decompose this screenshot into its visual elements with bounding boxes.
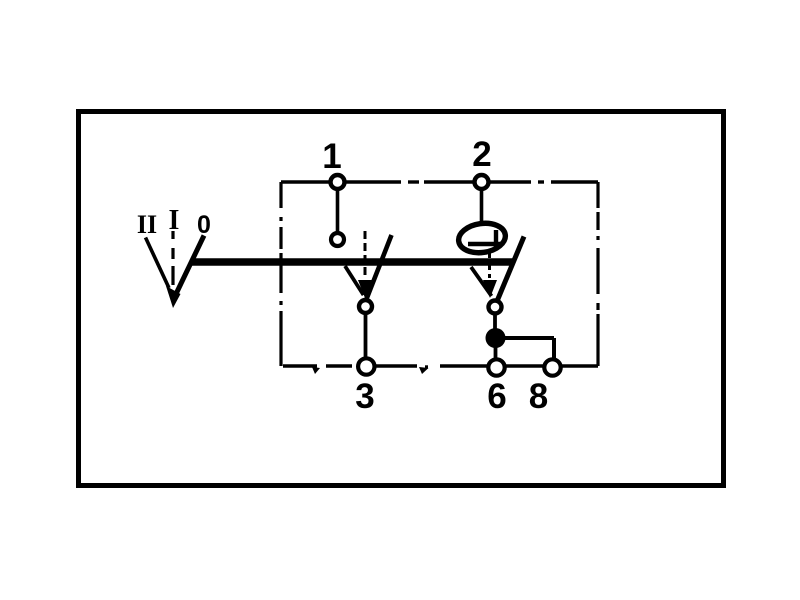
- contact 1 movement arrow (dashed): [364, 231, 367, 278]
- contact 2 left leg: [471, 267, 492, 296]
- lever line at position 0: [176, 236, 205, 296]
- contact 1 moving blade: [367, 235, 392, 299]
- contact 2 pole circle: [489, 301, 502, 314]
- terminal 6: [488, 359, 504, 375]
- outer border frame: [79, 112, 724, 486]
- junction dot: [486, 328, 506, 348]
- tick mark on bottom edge: [419, 367, 429, 374]
- lever line to position II: [146, 238, 170, 289]
- svg-text:8: 8: [529, 377, 548, 416]
- wire junction to terminal 8 (vertical): [552, 338, 556, 358]
- contact 1 left leg: [345, 266, 364, 295]
- lever arrowhead: [166, 286, 181, 308]
- fixed contact circle (pole 1): [331, 233, 344, 246]
- wire pole 1 down to terminal 3: [364, 314, 368, 358]
- inner boundary: bottom edge solid run to corner: [440, 364, 598, 367]
- svg-text:3: 3: [355, 377, 374, 416]
- contact 2 moving blade: [498, 237, 525, 301]
- svg-text:II: II: [137, 210, 157, 239]
- inner dash-dot boundary: right edge: [596, 182, 599, 366]
- svg-text:1: 1: [322, 137, 341, 176]
- contact 1 arrowhead: [358, 280, 372, 298]
- svg-text:0: 0: [197, 211, 211, 239]
- inner dash-dot boundary: left edge: [279, 182, 282, 366]
- svg-text:6: 6: [487, 377, 506, 416]
- terminal 3: [358, 358, 374, 374]
- wire junction to terminal 6: [494, 346, 498, 358]
- terminal 8: [544, 359, 560, 375]
- actuator bar (mechanical link): [192, 258, 514, 266]
- terminal 1: [331, 175, 345, 189]
- contact 1 pole circle: [359, 300, 372, 313]
- lever dashed line to position I: [171, 231, 174, 285]
- wire terminal 2 to loop: [480, 190, 484, 226]
- wire junction to terminal 8 (horizontal): [503, 336, 554, 340]
- contact 2 movement arrow (dashed): [488, 250, 491, 278]
- loop symbol (coil): [457, 220, 508, 255]
- inner dash-dot boundary: bottom edge: [283, 366, 428, 367]
- svg-text:2: 2: [472, 135, 491, 174]
- inner dash-dot boundary: top edge: [281, 180, 598, 183]
- wire pole 2 down to junction: [493, 314, 497, 330]
- tick mark on bottom edge: [312, 367, 320, 374]
- contact 2 arrowhead: [483, 280, 497, 298]
- wire terminal 1 to fixed contact: [336, 190, 340, 232]
- terminal 2: [475, 175, 489, 189]
